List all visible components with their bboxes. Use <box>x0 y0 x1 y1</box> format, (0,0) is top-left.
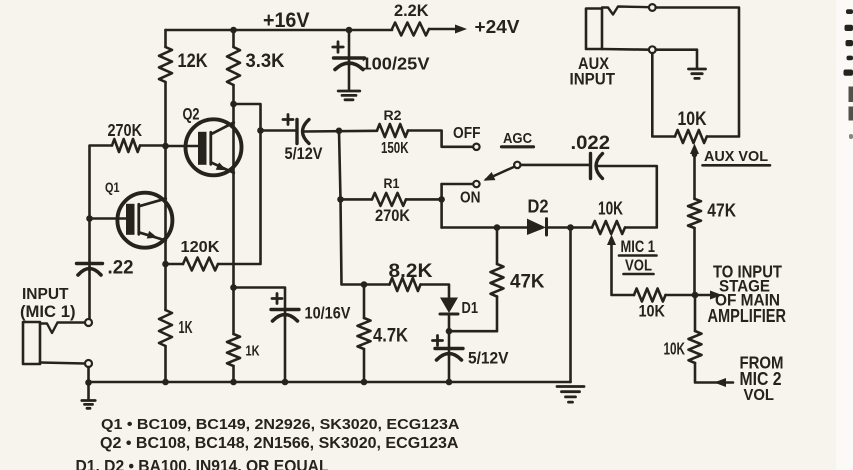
svg-text:Q1: Q1 <box>105 180 120 195</box>
svg-text:VOL: VOL <box>744 387 775 404</box>
svg-text:AGC: AGC <box>503 130 532 147</box>
svg-text:.022: .022 <box>571 132 611 154</box>
svg-text:10K: 10K <box>598 197 624 218</box>
svg-text:Q2: Q2 <box>183 105 200 123</box>
svg-text:(MIC 1): (MIC 1) <box>20 303 76 321</box>
svg-text:ON: ON <box>460 189 481 206</box>
svg-text:10K: 10K <box>639 301 666 320</box>
svg-text:100/25V: 100/25V <box>362 53 430 73</box>
svg-text:.22: .22 <box>108 256 134 278</box>
svg-text:INPUT: INPUT <box>22 286 69 303</box>
svg-text:150K: 150K <box>381 140 409 157</box>
svg-text:D1: D1 <box>462 300 479 317</box>
svg-text:12K: 12K <box>178 51 208 72</box>
svg-text:MIC 1: MIC 1 <box>621 238 656 256</box>
svg-text:4.7K: 4.7K <box>373 324 409 346</box>
svg-text:1K: 1K <box>246 343 260 359</box>
svg-text:+16V: +16V <box>263 9 310 32</box>
svg-text:10/16V: 10/16V <box>305 303 352 322</box>
svg-text:270K: 270K <box>108 120 143 140</box>
svg-text:10K: 10K <box>678 109 707 130</box>
svg-text:OFF: OFF <box>453 125 481 142</box>
svg-text:47K: 47K <box>707 199 736 220</box>
svg-text:120K: 120K <box>181 239 221 256</box>
svg-text:47K: 47K <box>510 271 545 292</box>
svg-text:3.3K: 3.3K <box>246 51 285 72</box>
svg-text:D1, D2 • BA100, IN914, OR EQUA: D1, D2 • BA100, IN914, OR EQUAL <box>76 457 329 470</box>
svg-text:VOL: VOL <box>625 257 652 274</box>
svg-text:5/12V: 5/12V <box>468 348 509 367</box>
svg-text:AUX VOL: AUX VOL <box>704 149 768 165</box>
svg-text:Q2 • BC108, BC148, 2N1566, SK3: Q2 • BC108, BC148, 2N1566, SK3020, ECG12… <box>100 435 459 452</box>
svg-text:270K: 270K <box>375 207 410 225</box>
svg-text:2.2K: 2.2K <box>394 2 429 20</box>
svg-text:+24V: +24V <box>475 16 521 37</box>
svg-text:D2: D2 <box>528 195 549 216</box>
svg-text:10K: 10K <box>664 338 686 358</box>
svg-text:INPUT: INPUT <box>570 70 616 88</box>
svg-text:R2: R2 <box>384 107 402 123</box>
svg-text:R1: R1 <box>384 175 400 191</box>
svg-text:5/12V: 5/12V <box>285 145 323 163</box>
svg-text:Q1 • BC109, BC149, 2N2926, SK3: Q1 • BC109, BC149, 2N2926, SK3020, ECG12… <box>101 416 460 433</box>
svg-text:8.2K: 8.2K <box>389 260 434 282</box>
svg-text:AMPLIFIER: AMPLIFIER <box>708 305 787 326</box>
svg-text:MIC 2: MIC 2 <box>740 368 782 389</box>
svg-text:1K: 1K <box>179 317 193 337</box>
